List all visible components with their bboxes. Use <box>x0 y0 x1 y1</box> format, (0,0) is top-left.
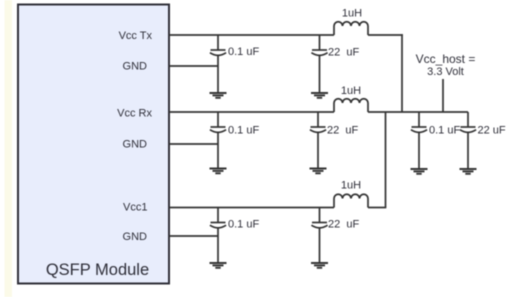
svg-text:22 uF: 22 uF <box>327 125 358 137</box>
capacitor C5 0.1uF (Vcc1) <box>210 208 226 264</box>
svg-text:0.1 uF: 0.1 uF <box>429 125 460 137</box>
wire GND Vcc1 <box>169 235 218 237</box>
capacitor C3 0.1uF (Rx) <box>210 112 226 169</box>
svg-text:22 uF: 22 uF <box>478 125 506 137</box>
svg-text:1uH: 1uH <box>342 8 362 20</box>
wire L3 out to corner <box>368 207 386 209</box>
wire Vcc_host label lead <box>442 79 444 112</box>
ground (C7) <box>411 169 428 174</box>
svg-text:Vcc_host =: Vcc_host = <box>416 52 476 66</box>
ground (C8) <box>460 169 477 174</box>
svg-text:1uH: 1uH <box>341 85 361 97</box>
ground (C6) <box>311 263 328 268</box>
wire Vcc Tx to inductor L1 <box>169 34 334 36</box>
wire GND Rx <box>169 143 218 145</box>
inductor L2 1uH <box>334 99 368 112</box>
svg-text:GND: GND <box>123 139 148 151</box>
wire vertical drop to host bus <box>401 34 403 112</box>
svg-text:GND: GND <box>123 231 148 243</box>
ground (C2) <box>311 93 328 98</box>
wire vertical rise Vcc1 to host bus <box>385 112 387 208</box>
inductor L3 1uH <box>334 194 368 207</box>
svg-text:GND: GND <box>123 61 148 73</box>
svg-text:22 uF: 22 uF <box>328 47 359 59</box>
capacitor C6 22uF (Vcc1) <box>311 208 327 264</box>
wire Vcc1 to inductor L3 <box>169 207 334 209</box>
capacitor C4 22uF (Rx) <box>310 112 326 169</box>
capacitor C1 0.1uF (Tx) <box>210 35 226 93</box>
svg-text:Vcc Tx: Vcc Tx <box>119 30 153 42</box>
wire GND Tx <box>169 65 218 67</box>
capacitor C2 22uF (Tx) <box>311 35 327 93</box>
QSFP module U1 <box>18 5 169 284</box>
wire L1 out to corner <box>368 34 403 36</box>
wire host bus <box>368 111 468 113</box>
svg-text:22 uF: 22 uF <box>328 219 359 231</box>
svg-text:0.1 uF: 0.1 uF <box>228 125 259 137</box>
svg-text:Vcc1: Vcc1 <box>123 202 147 214</box>
capacitor C8 22uF (host) <box>460 112 476 169</box>
svg-text:0.1 uF: 0.1 uF <box>228 46 259 58</box>
wire Vcc Rx to inductor L2 <box>169 111 334 113</box>
ground (C5) <box>210 263 227 268</box>
ground (C1) <box>210 93 227 98</box>
svg-text:1uH: 1uH <box>341 180 361 192</box>
inductor L1 1uH <box>334 22 368 35</box>
svg-text:0.1 uF: 0.1 uF <box>228 219 259 231</box>
ground (C4) <box>310 169 327 174</box>
capacitor C7 0.1uF (host) <box>411 112 427 169</box>
ground (C3) <box>210 169 227 174</box>
svg-text:3.3 Volt: 3.3 Volt <box>427 66 464 78</box>
svg-text:Vcc Rx: Vcc Rx <box>117 108 152 120</box>
svg-text:QSFP Module: QSFP Module <box>46 261 149 279</box>
